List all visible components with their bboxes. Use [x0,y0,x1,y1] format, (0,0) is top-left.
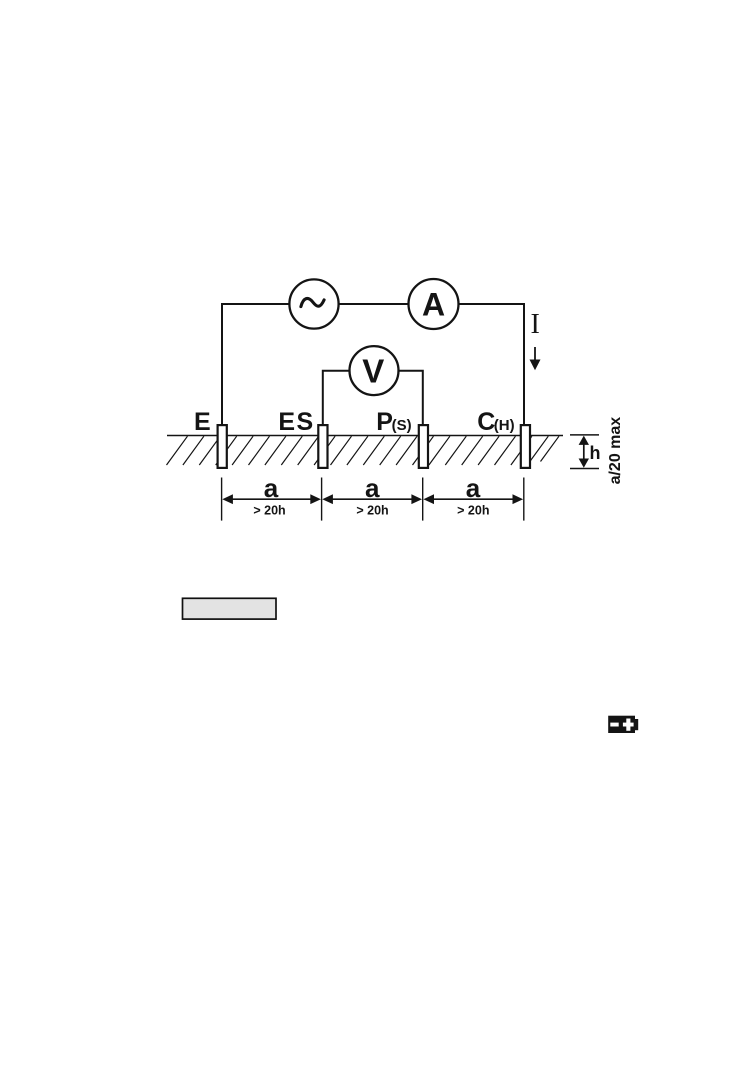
voltmeter label V [362,352,384,389]
dimension extension line at E [221,478,223,521]
wire: voltmeter to electrode P(S) riser [399,371,423,424]
dimension note > 20h (E to ES) [253,504,285,518]
wire: ammeter to electrode C(H) riser [459,304,525,424]
svg-text:ES: ES [278,408,314,436]
label ES [278,408,314,436]
dimension extension line at C(H) [523,478,525,521]
dimension arrow a (E to ES) [222,494,321,504]
grey callout box [183,598,277,619]
label P(S) [376,408,411,436]
electrode P(S) rod [419,425,428,468]
svg-text:V: V [362,352,384,389]
wire: electrode E riser to top rail [222,304,291,424]
dimension label a (ES to P) [365,473,380,503]
svg-text:a: a [466,473,481,503]
dimension label a (P to C) [466,473,481,503]
battery status icon [608,716,638,733]
ammeter label A [422,287,445,323]
dimension note > 20h (ES to P) [356,504,388,518]
label C(H) [477,408,514,436]
dimension label a (E to ES) [264,473,279,503]
svg-text:h: h [590,443,601,463]
svg-text:I: I [531,309,540,340]
svg-text:a: a [365,473,380,503]
depth note a/20 max (rotated) [607,417,624,485]
svg-text:> 20h: > 20h [253,504,285,518]
h dimension top reference line [570,434,599,436]
dimension note > 20h (P to C) [457,504,489,518]
electrode E rod [218,425,227,468]
svg-text:P(S): P(S) [376,408,411,436]
current direction arrow [530,347,541,370]
voltmeter U-V circle [350,346,399,395]
ground surface line [167,435,563,437]
wire: AC source to ammeter [339,303,409,305]
h dimension double arrow [579,436,589,468]
electrode ES rod [318,425,327,468]
ammeter U-A circle [409,279,459,329]
h dimension label h [590,443,601,463]
AC sine symbol inside source [301,298,324,306]
dimension arrow a (P to C) [423,494,523,504]
svg-text:C(H): C(H) [477,408,514,436]
svg-text:a/20 max: a/20 max [607,417,624,485]
ground hatching [167,436,560,465]
current label I [531,309,540,340]
AC source G (test generator circle) [289,279,338,328]
svg-text:> 20h: > 20h [457,504,489,518]
h dimension bottom reference line [570,468,599,470]
svg-text:A: A [422,287,445,323]
label E [194,408,211,436]
dimension arrow a (ES to P) [322,494,422,504]
dimension extension line at P(S) [422,478,424,521]
svg-text:a: a [264,473,279,503]
dimension extension line at ES [321,478,323,521]
wire: electrode ES riser to voltmeter [323,371,350,424]
electrode C(H) rod [521,425,530,468]
svg-text:E: E [194,408,211,436]
svg-text:> 20h: > 20h [356,504,388,518]
